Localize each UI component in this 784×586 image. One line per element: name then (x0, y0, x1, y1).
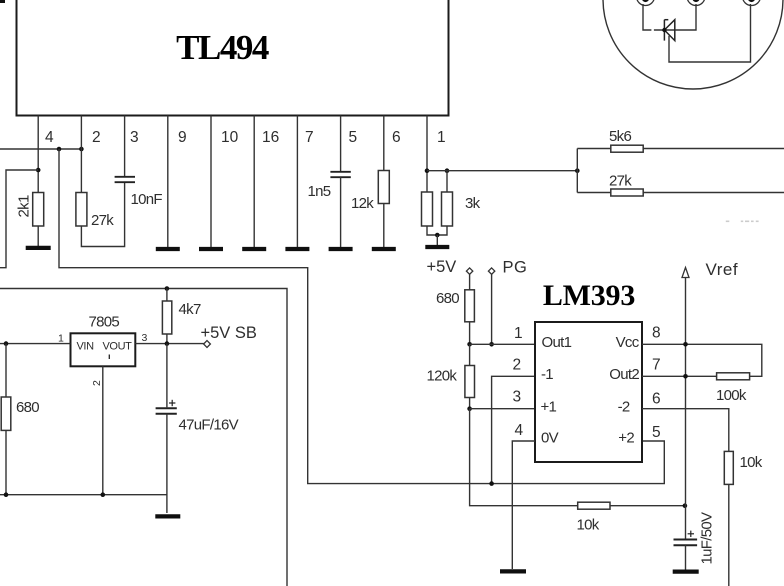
svg-text:2: 2 (513, 357, 522, 374)
resistor R 5k6 (611, 145, 643, 152)
ground pin 5 (329, 247, 353, 251)
svg-text:27k: 27k (609, 173, 632, 190)
terminal PG (488, 268, 494, 274)
svg-text:4: 4 (515, 422, 524, 439)
node pin1 junction (425, 168, 430, 173)
resistor R 27k right (611, 189, 643, 196)
svg-text:5: 5 (349, 129, 358, 146)
regulator common tick (108, 355, 110, 360)
wire PG down to Out1 (491, 274, 493, 344)
wire 47uF bottom (166, 414, 168, 513)
svg-text:10: 10 (221, 129, 239, 146)
svg-text:0V: 0V (541, 430, 559, 447)
wire 2k1 to ground (37, 226, 39, 246)
svg-text:1: 1 (58, 333, 64, 345)
svg-text:3: 3 (130, 129, 139, 146)
wire diode bottom to pin C (669, 4, 751, 62)
IC U1 TL494 body (17, 0, 449, 116)
svg-text:-2: -2 (618, 398, 630, 415)
ground bar corner (cropped, top-left) (0, 0, 5, 3)
wire 27k bottom to cap bottom (81, 183, 124, 247)
wire divider vertical (576, 149, 578, 193)
wire 27k branch (577, 192, 784, 194)
wire 5k6 branch (577, 148, 784, 150)
wire feedback bus at y149 (0, 148, 81, 150)
svg-text:TL494: TL494 (176, 28, 269, 67)
svg-text:3: 3 (142, 332, 148, 344)
node 4k7 top junction (165, 286, 170, 291)
polarity plus 1uF (688, 531, 694, 537)
wire standby power rail (0, 289, 287, 586)
svg-text:3: 3 (513, 389, 522, 406)
svg-text:120k: 120k (427, 368, 458, 385)
svg-text:4: 4 (45, 129, 54, 146)
resistor R 3k left (422, 192, 433, 226)
resistor R 3k right (442, 192, 453, 226)
resistor R 4k7 (166, 289, 168, 302)
wire 680 bottom (5, 430, 7, 494)
svg-text:+1: +1 (541, 398, 557, 415)
ground 1uF (673, 569, 699, 573)
pin 10 wire (210, 116, 212, 248)
svg-text:-1: -1 (541, 366, 553, 383)
svg-text:3k: 3k (465, 195, 481, 212)
wire -1 pin 2 branch (492, 376, 535, 483)
svg-text:1n5: 1n5 (308, 183, 331, 200)
ground pin 10 (199, 247, 223, 251)
wire 120k down (469, 398, 471, 409)
svg-text:1uF/50V: 1uF/50V (699, 512, 716, 564)
terminal +5V SB (204, 341, 211, 348)
svg-text:Vref: Vref (706, 260, 739, 279)
svg-text:6: 6 (392, 129, 401, 146)
resistor R 10k vertical (724, 451, 733, 484)
svg-text:8: 8 (652, 325, 661, 342)
svg-text:PG: PG (503, 259, 528, 277)
wire 680 to Out1 (469, 322, 471, 345)
ground LM393 (500, 569, 526, 573)
polarity plus 47uF (169, 400, 175, 406)
svg-text:7: 7 (305, 129, 314, 146)
wire 7805 input (0, 343, 71, 345)
svg-text:7: 7 (652, 357, 661, 374)
svg-text:12k: 12k (351, 195, 374, 212)
wire Out2 pin 7 (642, 375, 717, 377)
ground under 3k (425, 245, 449, 249)
wire 680 top (5, 344, 7, 397)
ground 7805 (155, 514, 180, 518)
resistor R 680 pullup (465, 290, 475, 322)
terminal +5V (466, 268, 472, 274)
IC U3 LM393 body (535, 322, 642, 462)
wire gap segment to diode (654, 29, 675, 31)
wire 0V pin 4 to ground (512, 441, 535, 569)
pin 4 wire (37, 116, 39, 193)
svg-text:2: 2 (92, 129, 101, 146)
pin 6 wire (383, 116, 385, 171)
wire 10k to bottom edge (728, 484, 730, 586)
faint erased marks (726, 220, 759, 222)
pin 16 wire (253, 116, 255, 248)
wire pin A down (643, 4, 651, 30)
wire 1uF to ground (685, 545, 687, 569)
ground pin 9 (156, 247, 180, 251)
wire Vcc pin 8 to 100k (642, 344, 762, 376)
svg-text:10k: 10k (577, 517, 600, 534)
svg-text:10nF: 10nF (131, 191, 163, 208)
pin 5 wire (340, 116, 342, 172)
node 680 top junction (4, 341, 9, 346)
svg-text:+2: +2 (618, 430, 634, 447)
wire 1n5 to ground (340, 177, 342, 247)
node 680-120k junction (467, 342, 472, 347)
pin 7 wire (296, 116, 298, 248)
regulator U2 7805 box (71, 333, 136, 366)
wire Vref rail (685, 278, 687, 539)
arrow Vref (682, 268, 689, 278)
node -1 to bus junction (489, 481, 494, 486)
resistor R 27k (76, 193, 87, 227)
ground pin 7 (285, 247, 309, 251)
svg-text:VOUT: VOUT (103, 341, 133, 353)
ground pin 16 (242, 247, 266, 251)
svg-text:4k7: 4k7 (179, 301, 201, 318)
node output junction (165, 341, 170, 346)
diode D zener (664, 20, 674, 41)
svg-text:10k: 10k (740, 454, 763, 471)
node 10k Vref junction (683, 503, 688, 508)
svg-text:9: 9 (178, 129, 187, 146)
wire 3k bottoms join (427, 226, 447, 235)
wire 120k rail to 10k (470, 409, 578, 506)
connector pin C (743, 0, 761, 6)
svg-text:Vcc: Vcc (616, 334, 640, 351)
wire Out1 pin 1 (470, 343, 535, 345)
node 680 bottom junction (4, 492, 9, 497)
wire pin4 to left edge (0, 170, 38, 268)
node Out2 junction (683, 374, 688, 379)
wire -2 pin 6 to 10k (642, 409, 729, 452)
wire +1 pin 3 (470, 408, 535, 410)
wire 7805 output (135, 343, 204, 345)
svg-text:47uF/16V: 47uF/16V (179, 417, 239, 434)
pin 2 wire (80, 116, 82, 193)
node junction y149 x81 (79, 147, 84, 152)
svg-text:5: 5 (652, 424, 661, 441)
svg-text:680: 680 (16, 399, 39, 416)
wire 10k to Vref rail (610, 505, 685, 507)
svg-text:5k6: 5k6 (609, 128, 631, 145)
pin 1 wire (426, 116, 428, 193)
node PG junction (489, 342, 494, 347)
wire diode to pin B (675, 4, 696, 30)
node divider junction (575, 168, 580, 173)
svg-text:1: 1 (514, 325, 523, 342)
svg-text:2: 2 (91, 380, 103, 386)
resistor R 2k1 (33, 193, 44, 227)
wire 3k right top stub (446, 171, 448, 192)
svg-text:+5V SB: +5V SB (201, 324, 257, 342)
resistor R 120k (469, 344, 471, 365)
wire 3k to ground (436, 235, 438, 245)
pin 9 wire (167, 116, 169, 248)
node pin4 junction (36, 168, 41, 173)
resistor R 100k (717, 373, 750, 380)
node pin2 bottom junction (101, 492, 106, 497)
capacitor C 1n5 (330, 172, 350, 177)
wire pin1 to divider (427, 170, 577, 172)
ground under 2k1 (26, 246, 51, 250)
svg-text:Out2: Out2 (609, 366, 639, 383)
svg-text:16: 16 (262, 129, 279, 146)
ground pin 6 (372, 247, 396, 251)
svg-text:Out1: Out1 (542, 334, 572, 351)
wire ground bus 7805 (0, 494, 167, 496)
svg-text:680: 680 (436, 290, 459, 307)
wire 12k to ground (383, 204, 385, 248)
node 3k bottom junction (435, 233, 440, 238)
wire +5V to 680 (469, 274, 471, 290)
svg-text:+5V: +5V (427, 258, 457, 276)
svg-text:27k: 27k (91, 212, 114, 229)
wire long run TL494 to LM393 (59, 149, 664, 484)
svg-text:1: 1 (437, 129, 446, 146)
connector shell circle (603, 0, 783, 89)
node diode junction (662, 28, 666, 32)
svg-text:100k: 100k (716, 387, 747, 404)
resistor R 680 (1, 397, 11, 430)
pin 3 wire (124, 116, 126, 177)
svg-text:6: 6 (652, 391, 661, 408)
resistor R 12k (378, 171, 389, 204)
node pin1 junction right (445, 168, 450, 173)
node Vcc junction (683, 342, 688, 347)
connector pin B (687, 0, 705, 6)
wire 4k7 bottom (166, 334, 168, 344)
resistor R 10k horizontal (578, 502, 610, 509)
svg-text:7805: 7805 (89, 314, 120, 331)
node junction y149 x59 (57, 147, 62, 152)
svg-text:2k1: 2k1 (16, 195, 33, 217)
svg-text:VIN: VIN (77, 341, 95, 353)
capacitor C 47uF/16V (166, 344, 168, 408)
wire 7805 pin2 down (102, 366, 104, 494)
connector pin A (637, 0, 655, 6)
capacitor C 1uF/50V (674, 540, 698, 546)
svg-text:LM393: LM393 (543, 279, 635, 312)
node +1 junction (467, 406, 472, 411)
capacitor C 10nF (115, 177, 135, 182)
